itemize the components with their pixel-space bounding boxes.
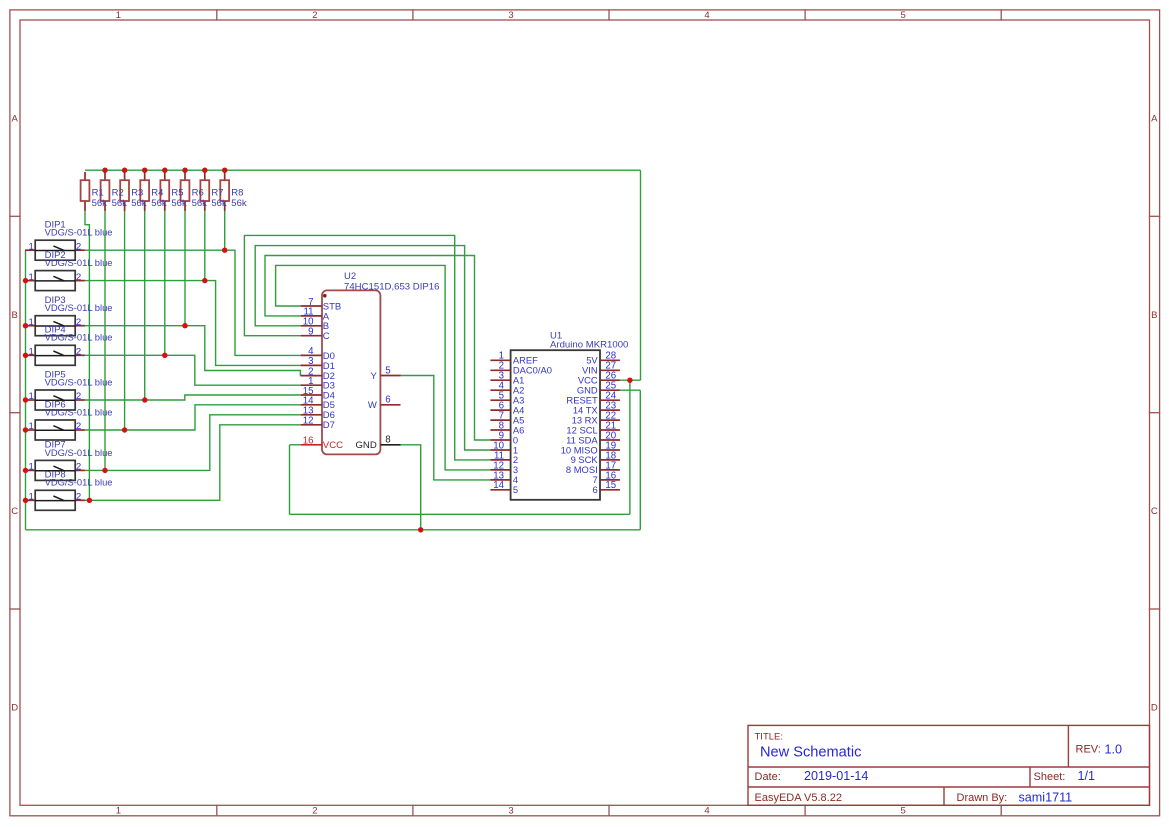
resistor R3 label 56k [131,187,147,208]
svg-text:D: D [1151,702,1158,713]
U1 pin 23 14 TX [573,401,620,416]
svg-text:2: 2 [76,421,81,432]
wire U2 B to U1 pin 10 (1) [255,246,490,450]
junction GND bus / DIP6 pin 1 [23,427,28,432]
svg-text:1: 1 [28,241,33,252]
svg-text:Y: Y [370,371,377,382]
svg-text:9: 9 [308,327,313,338]
svg-text:GND: GND [355,440,376,451]
svg-text:1.0: 1.0 [1105,742,1123,756]
net VCC: wire into U1 VCC pin 26 [620,379,641,381]
title block [748,725,1150,805]
U2 pin 4 D0 [301,346,335,362]
U2 pin 15 D4 [301,386,335,402]
net VCC: lower return bus to U2 VCC [290,513,630,515]
net GND: wire into U1 GND pin 25 [620,389,640,391]
wire R2 column down to DIP7 output row [104,211,106,471]
svg-text:2: 2 [76,391,81,402]
U2 pin 14 D5 [301,396,335,412]
svg-text:R4: R4 [151,187,163,198]
U2 pin 11 A [301,307,330,323]
junction DIP7 output / R2 bottom [102,468,107,473]
wire U2 C to U1 pin 11 (2) [244,235,490,460]
junction GND bus / U2 GND branch [418,527,423,532]
wire R3 column down to DIP6 output row [124,211,126,431]
resistor R2 label 56k [112,187,128,208]
svg-text:VDG/S-01L blue: VDG/S-01L blue [45,406,113,417]
DIP switch DIP5 labels VDG/S-01L blue [45,369,113,387]
junction GND bus / DIP2 pin 1 [23,278,28,283]
DIP switch DIP7 labels VDG/S-01L blue [45,440,113,458]
U1 pin 2 DAC0/A0 [490,361,552,376]
DIP switch DIP4 body [25,345,85,365]
svg-text:B: B [12,310,18,321]
svg-text:2: 2 [312,806,317,817]
junction GND bus / DIP7 pin 1 [23,468,28,473]
DIP switch DIP3 labels VDG/S-01L blue [45,295,113,313]
net VCC: vertical up to U2 pin 16 [289,445,291,515]
U1 pin 13 4 [490,470,518,485]
DIP switch DIP1 body [25,240,85,260]
net VCC: stub into U2 VCC pin [290,444,301,446]
DIP switch DIP8 body [25,490,85,510]
svg-text:New Schematic: New Schematic [760,744,861,760]
net VCC: right vertical down to U1 pin 26 [640,170,642,380]
U1 pin 18 9 SCK [571,450,620,465]
svg-text:REV:: REV: [1076,743,1101,755]
svg-text:56k: 56k [192,198,208,209]
svg-text:1: 1 [28,391,33,402]
svg-text:VDG/S-01L blue: VDG/S-01L blue [45,332,113,343]
svg-text:12: 12 [303,416,314,427]
DIP switch DIP6 labels VDG/S-01L blue [45,399,113,417]
svg-text:D: D [11,702,18,713]
U1 pin 26 VCC [578,371,620,386]
svg-text:B: B [1151,310,1157,321]
svg-text:VDG/S-01L blue: VDG/S-01L blue [45,477,113,488]
svg-text:4: 4 [704,10,709,21]
DIP switch DIP2 body [25,271,85,291]
svg-text:56k: 56k [151,198,167,209]
U2 pin 2 D2 [301,366,335,382]
U1 pin 11 2 [490,450,518,465]
junction VCC bus / R2 top [102,168,107,173]
svg-text:2: 2 [76,272,81,283]
U1 pin 17 8 MOSI [566,460,620,475]
svg-text:1: 1 [116,10,121,21]
wire U2 A to U1 pin 9 (0) [265,256,490,441]
U2 pin 7 STB [301,297,342,313]
U1 pin 1 AREF [490,351,538,366]
svg-text:6: 6 [385,395,390,406]
svg-text:VDG/S-01L blue: VDG/S-01L blue [45,257,113,268]
U1 pin 22 13 RX [572,411,620,426]
wire R8 column down to DIP1 output row [224,211,226,251]
junction VCC bus / R6 top [182,168,187,173]
junction GND bus / DIP4 pin 1 [23,353,28,358]
junction VCC bus / R3 top [122,168,127,173]
svg-text:VDG/S-01L blue: VDG/S-01L blue [45,447,113,458]
svg-text:1/1: 1/1 [1078,769,1096,783]
U1 pin 4 A2 [490,381,524,396]
junction VCC bus / R8 top [222,168,227,173]
resistor R6 label 56k [192,187,208,208]
DIP switch DIP1 labels VDG/S-01L blue [45,220,113,238]
svg-text:Arduino MKR1000: Arduino MKR1000 [550,340,628,351]
svg-text:4: 4 [704,806,709,817]
net GND: wire from U2 GND pin 8 [401,445,421,530]
wire DIP3 output to U2 D2 [85,326,301,376]
DIP switch DIP4 labels VDG/S-01L blue [45,325,113,343]
U1 pin 15 6 [592,480,619,495]
svg-text:2019-01-14: 2019-01-14 [804,769,868,783]
svg-text:1: 1 [28,347,33,358]
U2 pin 6 W output [368,395,401,412]
U2 pin 16 VCC [301,436,343,452]
svg-text:6: 6 [592,484,597,495]
junction DIP1 output / R8 bottom [222,248,227,253]
svg-text:Date:: Date: [755,771,781,783]
svg-text:C: C [323,331,330,342]
U1 pin 12 3 [490,460,518,475]
svg-text:A: A [12,114,19,125]
U2 pin 12 D7 [301,416,335,432]
junction VCC bus / R5 top [162,168,167,173]
U1 pin 9 0 [490,430,518,445]
svg-text:A: A [1151,114,1158,125]
svg-text:2: 2 [76,317,81,328]
resistor R5 label 56k [171,187,187,208]
svg-text:15: 15 [605,480,616,491]
net VCC: top bus joining resistor tops [85,169,641,171]
wire R6 column down to DIP3 output row [184,211,186,326]
junction DIP4 output / R5 bottom [162,353,167,358]
svg-text:2: 2 [76,462,81,473]
svg-text:5: 5 [900,806,905,817]
U2 pin 13 D6 [301,406,335,422]
DIP switch DIP3 body [25,316,85,336]
U1 pin 16 7 [592,470,619,485]
svg-text:C: C [11,506,18,517]
svg-text:1: 1 [116,806,121,817]
svg-text:5: 5 [385,365,390,376]
resistor R7 label 56k [211,187,227,208]
svg-text:VDG/S-01L blue: VDG/S-01L blue [45,227,113,238]
U1 pin 24 RESET [566,391,619,406]
resistor R8 [220,172,229,211]
IC U2 74HC151D,653 DIP16 body [322,271,439,454]
svg-text:R3: R3 [131,187,143,198]
resistor R7 [200,172,209,211]
svg-text:VDG/S-01L blue: VDG/S-01L blue [45,376,113,387]
svg-text:56k: 56k [231,198,247,209]
svg-text:EasyEDA V5.8.22: EasyEDA V5.8.22 [755,792,842,804]
svg-text:56k: 56k [131,198,147,209]
wire U2 Y output to U1 pin 13 (4) [401,376,491,480]
junction GND bus / DIP8 pin 1 [23,498,28,503]
svg-text:VDG/S-01L blue: VDG/S-01L blue [45,302,113,313]
svg-text:Drawn By:: Drawn By: [957,792,1008,804]
svg-text:R7: R7 [211,187,223,198]
junction DIP8 output / R1 bottom [87,498,92,503]
DIP switch DIP5 body [25,390,85,410]
U2 pin 5 Y output [370,365,400,382]
junction DIP3 output / R6 bottom [182,323,187,328]
resistor R5 [160,172,169,211]
U1 pin 8 A6 [490,420,524,435]
U1 pin 6 A4 [490,401,524,416]
svg-text:56k: 56k [211,198,227,209]
svg-text:Sheet:: Sheet: [1034,771,1066,783]
U1 pin 20 11 SDA [566,430,620,445]
net VCC: branch down from junction [629,380,631,514]
resistor R1 [81,172,90,211]
DIP switch DIP7 body [25,460,85,480]
junction GND bus / DIP5 pin 1 [23,397,28,402]
svg-text:56k: 56k [171,198,187,209]
resistor R6 [181,172,190,211]
svg-text:sami1711: sami1711 [1019,790,1073,804]
U2 pin 10 B [301,317,329,333]
U2 pin 9 C [301,327,330,343]
svg-text:1: 1 [28,492,33,503]
U2 pin 1 D3 [301,376,335,392]
svg-text:2: 2 [76,241,81,252]
wire DIP6 output to U2 D5 [85,405,301,430]
wire DIP2 output to U2 D1 [85,281,301,366]
wire R4 column down to DIP5 output row [144,211,146,401]
svg-text:1: 1 [28,462,33,473]
svg-text:W: W [368,400,377,411]
U1 pin 21 12 SCL [566,420,619,435]
U1 pin 27 VIN [582,361,620,376]
svg-text:VCC: VCC [323,440,343,451]
U1 pin 3 A1 [490,371,524,386]
svg-text:R2: R2 [112,187,124,198]
junction DIP6 output / R3 bottom [122,427,127,432]
U1 pin 28 5V [586,351,620,366]
junction VCC bus / R4 top [142,168,147,173]
net GND: right vertical up to U1 pin 25 [639,390,641,530]
U1 pin 14 5 [490,480,518,495]
svg-text:R8: R8 [231,187,243,198]
wire U2 STB to U1 pin 12 (3) [276,265,491,470]
junction VCC bus / R7 top [202,168,207,173]
svg-text:R1: R1 [92,187,104,198]
DIP switch DIP2 labels VDG/S-01L blue [45,250,113,268]
svg-text:14: 14 [493,480,504,491]
svg-text:56k: 56k [92,198,108,209]
U1 pin 25 GND [577,381,620,396]
U1 pin 7 A5 [490,411,524,426]
svg-text:8: 8 [385,435,390,446]
junction DIP5 output / R4 bottom [142,397,147,402]
junction U1 VCC branch [627,378,632,383]
net GND: bottom bus [26,529,641,531]
U2 pin 3 D1 [301,356,335,372]
svg-text:5: 5 [513,484,518,495]
wire R1 column down to DIP8 output row [85,211,89,501]
svg-text:2: 2 [312,10,317,21]
net GND: left bus joining DIP pin-1 terminals [25,250,27,530]
svg-text:3: 3 [508,806,513,817]
svg-text:1: 1 [28,272,33,283]
svg-text:5: 5 [900,10,905,21]
svg-text:R6: R6 [192,187,204,198]
svg-text:2: 2 [76,347,81,358]
IC U1 Arduino MKR1000 body [511,330,629,500]
wire DIP7 output to U2 D6 [85,415,301,471]
U2 pin 8 GND [355,435,400,452]
svg-text:74HC151D,653 DIP16: 74HC151D,653 DIP16 [344,281,439,292]
svg-text:1: 1 [28,317,33,328]
junction DIP2 output / R7 bottom [202,278,207,283]
svg-text:2: 2 [76,492,81,503]
resistor R3 [120,172,129,211]
svg-text:C: C [1151,506,1158,517]
wire DIP1 output to U2 D0 [85,250,301,355]
resistor R2 [101,172,110,211]
wire DIP5 output to U2 D4 [85,395,301,400]
wire R7 column down to DIP2 output row [204,211,206,281]
svg-text:16: 16 [303,436,314,447]
svg-text:56k: 56k [112,198,128,209]
U1 pin 19 10 MISO [561,440,620,455]
svg-text:D7: D7 [323,420,335,431]
svg-text:3: 3 [508,10,513,21]
U1 pin 10 1 [490,440,518,455]
resistor R8 label 56k [231,187,247,208]
resistor R4 [140,172,149,211]
svg-text:1: 1 [28,421,33,432]
wire R5 column down to DIP4 output row [164,211,166,356]
U1 pin 5 A3 [490,391,524,406]
resistor R4 label 56k [151,187,167,208]
junction GND bus / DIP3 pin 1 [23,323,28,328]
svg-text:TITLE:: TITLE: [755,732,784,743]
resistor R1 label 56k [92,187,108,208]
wire DIP4 output to U2 D3 [85,355,301,385]
DIP switch DIP6 body [25,420,85,440]
DIP switch DIP8 labels VDG/S-01L blue [45,470,113,488]
svg-text:R5: R5 [171,187,183,198]
wire DIP8 output to U2 D7 [85,425,301,501]
